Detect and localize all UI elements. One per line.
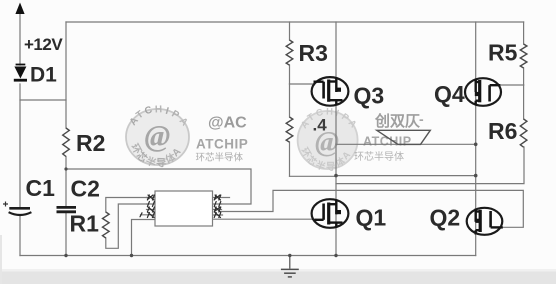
wire A : R2/C2 junction to IC pin	[66, 169, 251, 204]
IC pin hatch marks	[140, 195, 221, 218]
transistor Q3	[312, 77, 349, 106]
svg-text:环芯半导体: 环芯半导体	[354, 150, 404, 163]
wire R2/C2 rail	[65, 22, 67, 256]
resistor R5	[520, 44, 527, 68]
svg-text:C1: C1	[26, 175, 56, 201]
wire top supply bus	[66, 21, 524, 23]
wire R6 column	[523, 85, 525, 119]
transistor Q2	[467, 208, 503, 235]
svg-text:Q3: Q3	[354, 83, 385, 109]
svg-text:环芯半导体: 环芯半导体	[196, 152, 244, 164]
wire R5 column	[523, 22, 525, 85]
svg-text:Q1: Q1	[356, 205, 387, 231]
svg-text:@: @	[145, 118, 171, 153]
svg-text:H: H	[326, 107, 333, 118]
wire R1 loop	[106, 198, 147, 249]
svg-text:R1: R1	[70, 211, 100, 237]
wire R3 column	[289, 22, 291, 84]
IC U1	[155, 191, 213, 226]
wire Q3/Q1 rail	[335, 22, 337, 256]
wire Q4/Q2 rail	[475, 22, 477, 256]
watermark text block 1	[196, 115, 249, 164]
svg-text:ATCHIP: ATCHIP	[196, 136, 248, 151]
capacitor C1	[3, 202, 31, 216]
wire pin L3 stub	[141, 214, 156, 216]
wire R4 bottom to Q3 rail	[290, 175, 337, 177]
svg-text:.4: .4	[313, 116, 328, 135]
wire Q4 gate	[501, 84, 524, 86]
scan shadow left strip	[0, 235, 2, 284]
wire link 12V to top rail column	[20, 99, 66, 101]
svg-text:+12V: +12V	[24, 35, 63, 54]
wire R4 column	[289, 84, 291, 176]
resistor R6	[520, 119, 527, 147]
svg-text:-: -	[419, 111, 424, 127]
wire right pin stubs	[213, 198, 230, 216]
speaker LS1	[377, 130, 431, 144]
wire ground into IC	[132, 220, 156, 256]
svg-text:R3: R3	[299, 40, 328, 66]
svg-text:C2: C2	[71, 176, 100, 202]
supply arrow	[15, 3, 24, 15]
watermark stamp 1	[126, 104, 190, 170]
transistor Q4	[465, 78, 501, 106]
svg-text:@AC: @AC	[208, 115, 247, 132]
svg-text:R2: R2	[76, 130, 105, 156]
resistor R2	[63, 128, 70, 156]
resistor R1	[103, 212, 110, 238]
svg-text:Q4: Q4	[434, 81, 465, 107]
resistor R3	[286, 40, 293, 65]
ground	[281, 256, 299, 277]
wire speaker link	[336, 143, 476, 145]
wire Q1 gate	[213, 218, 317, 220]
wire +12V rail	[19, 10, 21, 256]
scan shadow bottom strip	[0, 272, 556, 284]
diode D1	[14, 65, 27, 81]
svg-text:创双仄: 创双仄	[374, 112, 420, 130]
svg-text:Q2: Q2	[430, 205, 461, 231]
capacitor C2	[57, 207, 77, 211]
svg-text:H: H	[155, 104, 163, 115]
svg-text:R5: R5	[488, 40, 518, 66]
watermark text block 2	[354, 111, 424, 163]
wire R6 bottom to Q3 rail	[336, 147, 524, 184]
wire Q3 gate	[290, 83, 314, 85]
wire left pin stubs	[147, 198, 156, 210]
wire B : IC pin to Q2 gate	[222, 190, 524, 227]
watermark stamp 2	[298, 107, 359, 174]
svg-text:D1: D1	[30, 64, 57, 87]
svg-text:R6: R6	[488, 118, 517, 144]
transistor Q1	[312, 199, 349, 228]
wire bottom ground bus	[20, 255, 476, 257]
wire mid link between rails	[336, 175, 476, 177]
resistor R4	[286, 117, 293, 142]
